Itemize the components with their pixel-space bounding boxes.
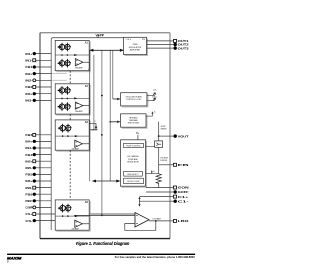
- svg-text:OSCILLATOR AND: OSCILLATOR AND: [126, 95, 143, 98]
- svg-text:CONTROL LOGIC: CONTROL LOGIC: [126, 99, 142, 101]
- pin COMP: [33, 206, 52, 208]
- wire: [146, 187, 170, 189]
- HV output node wire: [158, 122, 160, 141]
- V+ supply rail: [51, 38, 123, 230]
- pass transistor Q1: [155, 141, 163, 147]
- V+ tick: [97, 35, 99, 38]
- node dot on + input: [101, 215, 103, 217]
- svg-text:HV CHARGE: HV CHARGE: [127, 155, 139, 158]
- svg-text:For free samples and the lates: For free samples and the latest literatu…: [115, 255, 195, 259]
- svg-text:IN3-: IN3-: [25, 99, 32, 103]
- sub-block ref: [124, 171, 143, 176]
- svg-text:THERMAL: THERMAL: [129, 119, 138, 122]
- svg-text:BOOST LOGIC: BOOST LOGIC: [127, 181, 140, 183]
- svg-text:FB3: FB3: [25, 133, 32, 137]
- pin FB5: [33, 173, 52, 175]
- op-amp: [75, 102, 83, 109]
- svg-text:FB2: FB2: [25, 85, 32, 89]
- svg-text:LOW BATT: LOW BATT: [152, 217, 162, 220]
- wire: [146, 145, 159, 147]
- svg-text:IN2-: IN2-: [25, 79, 32, 83]
- wire: [146, 173, 159, 175]
- svg-text:C1+: C1+: [178, 195, 189, 199]
- svg-text:GON: GON: [178, 186, 190, 190]
- flying-cap arrow: [139, 198, 141, 205]
- pin FB1: [33, 66, 52, 68]
- wire: [140, 200, 171, 202]
- pin IN5+: [33, 160, 52, 162]
- pin IN4+: [33, 140, 52, 142]
- bus arrow top: [92, 49, 123, 51]
- bus wire: [89, 50, 91, 181]
- sub-block boost: [124, 178, 144, 184]
- pin OUT3: [170, 47, 173, 49]
- svg-text:PUMP CONTROL: PUMP CONTROL: [126, 146, 140, 148]
- svg-text:V+: V+: [154, 112, 156, 114]
- footer rule: [7, 254, 195, 255]
- chip outline U1: [40, 32, 170, 34]
- bias arrow node: [89, 122, 96, 124]
- channel block A2: [56, 85, 90, 115]
- svg-text:GM AMP: GM AMP: [75, 67, 83, 70]
- svg-text:FB6: FB6: [25, 192, 32, 196]
- svg-text:IN4+: IN4+: [25, 140, 32, 144]
- wire: [147, 94, 155, 96]
- svg-text:REGULATOR: REGULATOR: [127, 161, 139, 164]
- svg-text:C1-: C1-: [178, 199, 189, 203]
- svg-text:IN4-: IN4-: [25, 146, 32, 150]
- bus wire mid-chain: [93, 55, 95, 130]
- svg-text:IN1+: IN1+: [25, 52, 32, 56]
- pin IN5-: [33, 167, 52, 169]
- comparator U5: [135, 213, 149, 228]
- wire faint: [52, 79, 67, 81]
- wire: [146, 191, 170, 193]
- pin GON: [170, 187, 173, 189]
- pin CS+: [33, 213, 136, 215]
- pin IN6-: [33, 187, 52, 189]
- oscillator control block: [122, 94, 148, 107]
- pin IN3+: [33, 93, 52, 95]
- PWM modulation amplifier block: [125, 38, 148, 55]
- node dot: [158, 135, 160, 137]
- svg-text:IN1-: IN1-: [25, 59, 32, 63]
- wire: [146, 115, 153, 117]
- svg-text:IN6-: IN6-: [25, 186, 32, 190]
- bus arrow bottom: [94, 180, 119, 182]
- svg-text:CS-: CS-: [25, 219, 32, 223]
- svg-text:CS+: CS+: [25, 212, 32, 216]
- pin IN4-: [33, 147, 52, 149]
- svg-text:SHUTDOWN: SHUTDOWN: [128, 123, 140, 125]
- bus wire: [109, 50, 111, 181]
- svg-text:GM AMP: GM AMP: [72, 148, 80, 151]
- svg-text:V+PP: V+PP: [96, 33, 105, 37]
- svg-text:IN5-: IN5-: [25, 166, 32, 170]
- pin C1-: [170, 200, 173, 202]
- pin FB: [159, 164, 174, 166]
- dashed channel-repeat line: [69, 71, 71, 84]
- wire: [147, 100, 155, 102]
- channel block A1: [56, 42, 90, 72]
- pin IN6+: [33, 180, 52, 182]
- svg-text:FB5: FB5: [25, 173, 32, 177]
- pin GOFF: [170, 191, 173, 193]
- op-amp: [75, 140, 83, 147]
- pin FB2: [33, 86, 52, 88]
- sub-block bandgap: [124, 143, 144, 147]
- svg-text:IN3+: IN3+: [25, 92, 32, 96]
- svg-text:1 OF 6: 1 OF 6: [126, 39, 132, 41]
- pin IN1-: [33, 59, 52, 61]
- svg-text:V+: V+: [153, 171, 155, 173]
- pin IN2-: [33, 79, 52, 81]
- op-amp: [75, 220, 83, 227]
- svg-text:IN5+: IN5+: [25, 159, 32, 163]
- bus wire: [101, 50, 103, 215]
- dashed channel-repeat line: [69, 114, 71, 120]
- svg-text:FB1: FB1: [25, 65, 32, 69]
- pin IN1+: [33, 53, 52, 55]
- channel block A6: [56, 201, 90, 231]
- wire: [55, 135, 89, 137]
- wire: [147, 47, 171, 49]
- dashed channel-repeat line: [69, 150, 71, 200]
- wire: [147, 44, 171, 46]
- svg-text:REF SELECT: REF SELECT: [127, 174, 139, 176]
- wire: [158, 147, 160, 173]
- pin C1+: [170, 196, 173, 198]
- wire: [55, 97, 89, 99]
- svg-text:GOFF: GOFF: [178, 190, 189, 194]
- wire plus input already from pin CS+: [74, 214, 135, 216]
- wire: [88, 68, 90, 70]
- feedback loop: [125, 221, 156, 230]
- svg-text:REF AND: REF AND: [129, 116, 138, 119]
- regulator block: [122, 141, 147, 187]
- svg-text:GM AMP: GM AMP: [75, 110, 83, 113]
- svg-text:PUMP AND: PUMP AND: [128, 158, 138, 161]
- arrow into B3: [109, 121, 111, 123]
- thermal shutdown block: [122, 115, 147, 128]
- svg-text:DIVIDER: DIVIDER: [160, 160, 168, 162]
- svg-text:MODULATION: MODULATION: [129, 46, 142, 49]
- svg-text:RANGE: RANGE: [161, 127, 168, 130]
- svg-text:V+: V+: [136, 131, 140, 135]
- pin LBO: [170, 220, 173, 222]
- pin FB4: [33, 154, 52, 156]
- comparator output: [149, 220, 170, 222]
- svg-text:MAXIM: MAXIM: [7, 256, 21, 260]
- pin OUT1: [170, 40, 173, 42]
- pin FB3: [33, 134, 52, 136]
- svg-text:COMP: COMP: [25, 206, 32, 210]
- op-amp: [75, 59, 83, 66]
- svg-text:IN2+: IN2+: [25, 72, 32, 76]
- svg-text:FB4: FB4: [25, 153, 32, 157]
- svg-text:REF: REF: [25, 199, 32, 203]
- wire faint: [52, 73, 67, 75]
- svg-text:VOUT: VOUT: [178, 134, 189, 138]
- svg-text:GM AMP: GM AMP: [72, 228, 80, 231]
- pin IN2+: [33, 73, 52, 75]
- resistor R1: [156, 173, 161, 185]
- node dots: [101, 95, 103, 97]
- pin FB6: [33, 193, 52, 195]
- svg-text:IN6+: IN6+: [25, 179, 32, 183]
- svg-text:LBO: LBO: [178, 219, 190, 223]
- svg-text:OUT3: OUT3: [178, 46, 189, 50]
- pin CS-: [33, 220, 75, 222]
- wire: [140, 196, 171, 198]
- pin OUT2: [170, 44, 173, 46]
- pin REF: [33, 200, 52, 202]
- svg-text:Figure 1. Functional Diagram: Figure 1. Functional Diagram: [76, 241, 130, 246]
- channel block A3: [56, 121, 90, 151]
- wire: [147, 40, 171, 42]
- pin VOUT: [159, 135, 174, 137]
- svg-text:AMPLIFIER: AMPLIFIER: [130, 48, 141, 51]
- arrow into B2: [113, 98, 119, 100]
- wire: [55, 54, 89, 56]
- bus wire: [112, 50, 114, 99]
- pin IN3-: [33, 99, 52, 101]
- wire: [55, 215, 89, 217]
